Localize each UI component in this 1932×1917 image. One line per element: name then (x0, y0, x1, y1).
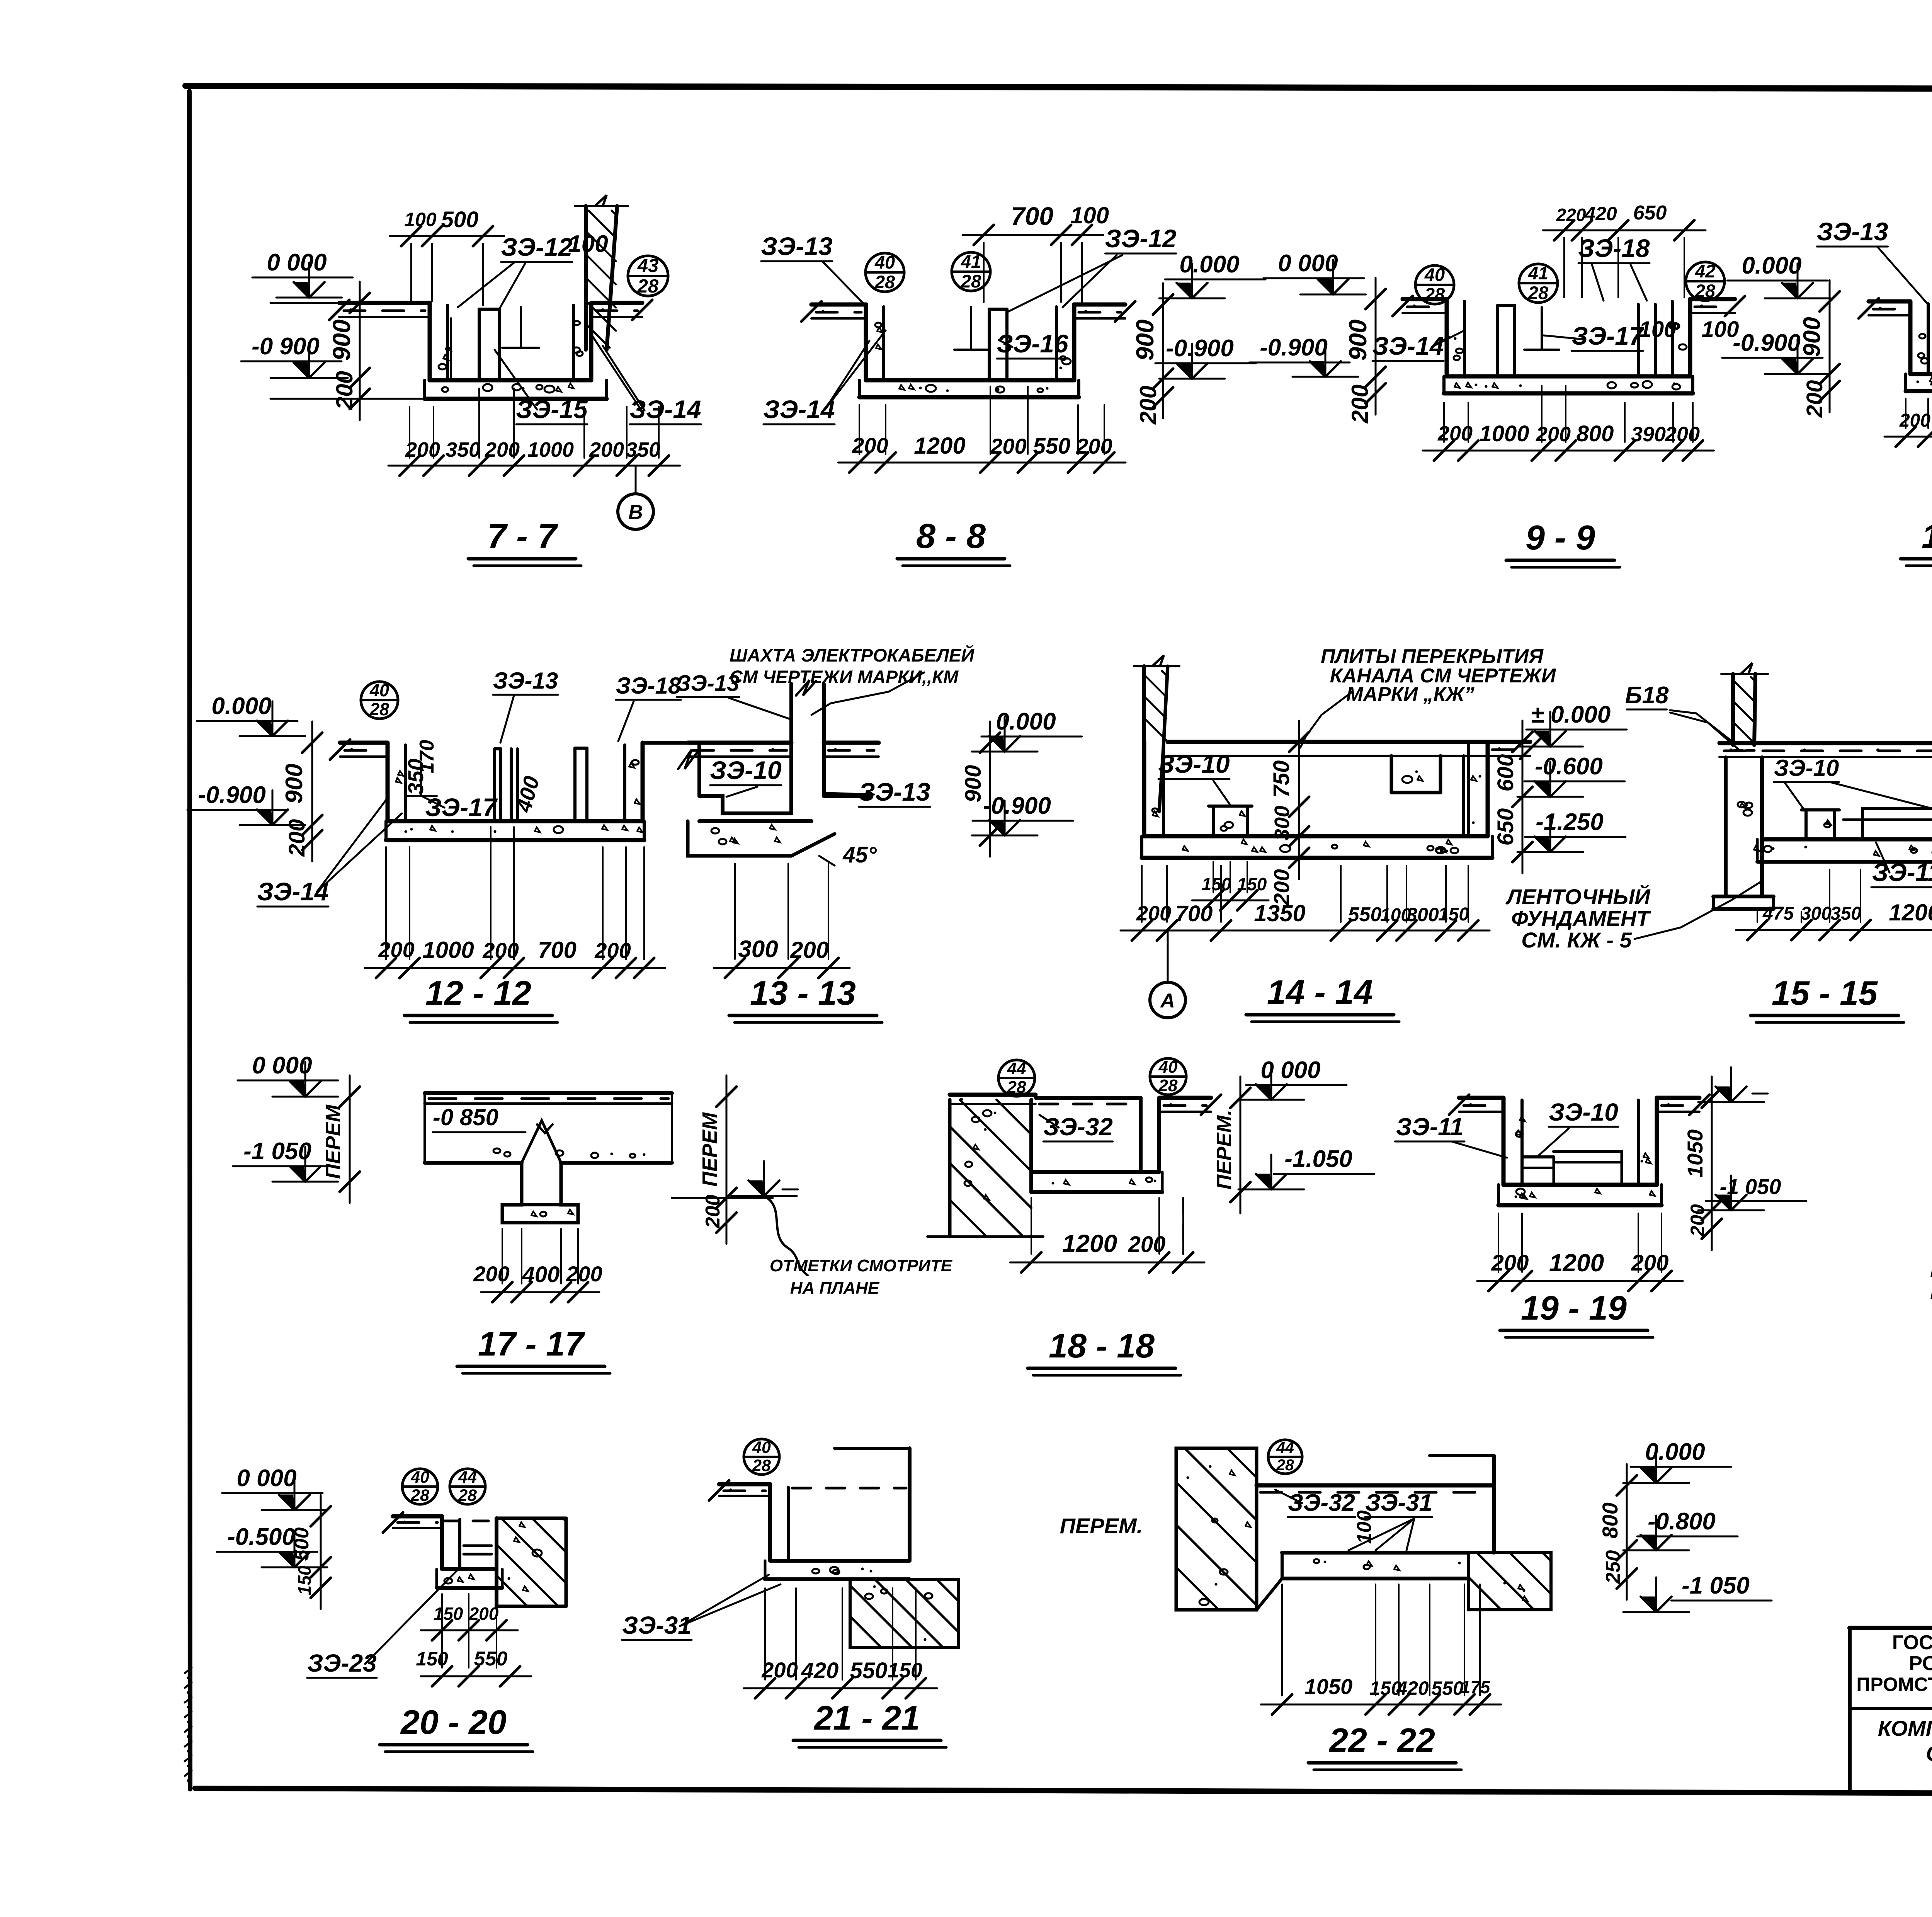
svg-text:100: 100 (1639, 317, 1677, 342)
section 9-9 title (1506, 519, 1620, 567)
section 17-17 level -0.850 (433, 1104, 553, 1133)
section 12-12 left dimension chain 900 200 (281, 721, 322, 861)
svg-text:ШАХТА ЭЛЕКТРОКАБЕЛЕЙ: ШАХТА ЭЛЕКТРОКАБЕЛЕЙ (730, 645, 975, 665)
svg-text:200: 200 (1665, 423, 1700, 446)
section 8-8 channel cross-section (801, 301, 1135, 397)
svg-text:550: 550 (850, 1658, 888, 1683)
section 14-14 level mark -1.250 (1517, 809, 1626, 852)
svg-text:420: 420 (1396, 1677, 1429, 1699)
svg-text:ЗЭ-13: ЗЭ-13 (761, 232, 832, 260)
section 17-17 left chain perem (321, 1075, 360, 1203)
section 8-8 bottom dimension chain (838, 386, 1126, 473)
svg-text:41: 41 (1528, 263, 1548, 283)
svg-text:28: 28 (1528, 282, 1549, 303)
svg-text:0 000: 0 000 (267, 249, 327, 276)
svg-text:200: 200 (702, 1195, 724, 1229)
svg-text:420: 420 (1584, 203, 1617, 225)
svg-text:900: 900 (328, 320, 355, 361)
svg-text:100: 100 (1353, 1510, 1376, 1544)
section 22-22 label perem (1060, 1514, 1143, 1538)
svg-text:390: 390 (1631, 423, 1666, 446)
svg-text:ПЕРЕМ.: ПЕРЕМ. (1213, 1110, 1236, 1190)
section 15-15 leader label ZE-11 (1871, 842, 1932, 887)
section 21-21 title (793, 1699, 946, 1747)
section 18-18 level mark 0.000 (1238, 1057, 1347, 1100)
svg-text:ЛЕНТОЧНЫЙ: ЛЕНТОЧНЫЙ (1505, 885, 1651, 909)
svg-text:200: 200 (1347, 384, 1373, 424)
svg-text:22 - 22: 22 - 22 (1328, 1721, 1435, 1759)
svg-text:28: 28 (874, 272, 895, 292)
section 10-10 channel cross-section (1859, 298, 1932, 391)
section 7-7 leader label ZE-12 (458, 231, 608, 309)
svg-text:-0.900: -0.900 (1733, 330, 1801, 356)
section 19-19 leader label ZE-11 (1395, 1113, 1507, 1158)
section 8-8 leader label ZE-14 (763, 330, 886, 424)
svg-text:150: 150 (1237, 874, 1267, 894)
section 14-14 bottom dimension chain (1121, 866, 1490, 941)
section 18-18 level mark -1.050 (1238, 1146, 1374, 1189)
svg-text:ЗЭ-11: ЗЭ-11 (1396, 1113, 1464, 1141)
svg-text:СТАНЦИЯ: СТАНЦИЯ (1926, 1741, 1932, 1766)
section 9-9 leader label ZE-14 (1372, 330, 1464, 361)
svg-text:1200: 1200 (1549, 1249, 1604, 1277)
svg-text:-0.500: -0.500 (227, 1524, 295, 1550)
svg-text:9 - 9: 9 - 9 (1526, 519, 1595, 557)
section 9-9 channel cross-section (1393, 296, 1745, 393)
svg-text:0 000: 0 000 (252, 1052, 312, 1079)
section 19-19 right levels (1683, 1067, 1806, 1250)
svg-text:200: 200 (1899, 410, 1930, 431)
section 21-21 axis circle 40/28 (744, 1438, 779, 1475)
section 13-13 right chain 900 (961, 721, 1000, 857)
svg-text:1000: 1000 (1479, 421, 1529, 446)
section 9-9 leader label ZE-18 (1578, 234, 1650, 301)
section 22-22 title (1308, 1721, 1461, 1770)
section 7-7 leader label ZE-14 (590, 333, 701, 424)
section 9-9 leader label ZE-17 (1544, 321, 1645, 351)
svg-text:-0 850: -0 850 (433, 1104, 498, 1130)
section 10-10 left dimension chain 900 200 (1799, 280, 1840, 418)
section 22-22 leader labels ZE-32 ZE-31 (1275, 1490, 1432, 1550)
svg-text:28: 28 (1158, 1076, 1178, 1095)
svg-text:170: 170 (416, 740, 438, 774)
svg-text:200: 200 (1135, 386, 1161, 425)
section 7-7 level mark 0.000 (252, 249, 353, 298)
svg-text:ЗЭ-17: ЗЭ-17 (1571, 321, 1645, 350)
svg-text:0.000: 0.000 (1742, 252, 1801, 279)
section 18-18 channel with hatched wall (927, 1095, 1221, 1237)
section 21-21 channel (709, 1448, 910, 1579)
svg-text:0 000: 0 000 (1260, 1057, 1320, 1084)
svg-text:14 - 14: 14 - 14 (1267, 973, 1373, 1011)
svg-text:ЗЭ-13: ЗЭ-13 (493, 668, 558, 694)
svg-text:200: 200 (469, 1604, 499, 1624)
svg-text:40: 40 (1424, 264, 1445, 285)
section 14-14 level mark +0.000 (1517, 701, 1627, 747)
svg-text:220: 220 (1556, 205, 1586, 225)
svg-text:900: 900 (281, 764, 308, 803)
section 13-13 label 45deg (819, 842, 877, 867)
svg-text:1200: 1200 (1889, 900, 1932, 925)
svg-text:200: 200 (852, 433, 888, 458)
svg-text:44: 44 (1007, 1059, 1026, 1078)
svg-text:1350: 1350 (1254, 900, 1305, 926)
svg-text:РОСТОВСКИЙ: РОСТОВСКИЙ (1909, 1652, 1932, 1675)
svg-text:-0.900: -0.900 (983, 793, 1051, 819)
section 9-9 left dimension chain 900 200 (1344, 278, 1386, 424)
svg-text:19 - 19: 19 - 19 (1521, 1289, 1627, 1327)
svg-text:40: 40 (410, 1468, 429, 1487)
svg-text:ЗЭ-32: ЗЭ-32 (1043, 1113, 1113, 1141)
svg-text:28: 28 (369, 699, 389, 719)
section 20-20 level mark 0.000 (222, 1465, 327, 1510)
section 10-10 title (1901, 517, 1932, 566)
svg-text:-1.250: -1.250 (1536, 809, 1604, 835)
svg-text:21 - 21: 21 - 21 (813, 1699, 920, 1737)
section 8-8 leader label ZE-12 (1007, 224, 1177, 312)
section 13-13 cable shaft note (730, 645, 975, 715)
svg-text:НА ПЛАНЕ: НА ПЛАНЕ (790, 1279, 880, 1298)
section 17-17 level mark 0.000 (238, 1052, 338, 1097)
section 22-22 axis circle 44/28 (1268, 1439, 1302, 1474)
section 7-7 bottom dimension chain (388, 388, 680, 476)
section 7-7 channel cross-section (329, 300, 652, 399)
svg-text:28: 28 (458, 1486, 477, 1505)
svg-text:100: 100 (568, 231, 608, 257)
section 19-19 title (1500, 1289, 1653, 1337)
section 18-18 bottom dimension chain 1200 200 (1010, 1198, 1204, 1272)
section 12-12 level mark -0.900 (187, 782, 305, 825)
section 8-8 leader label ZE-13 (761, 232, 866, 306)
svg-text:ОТМЕТКИ СМОТРИТЕ: ОТМЕТКИ СМОТРИТЕ (770, 1256, 953, 1275)
section 21-21 bottom dimension chain (744, 1588, 937, 1698)
svg-text:20 - 20: 20 - 20 (400, 1703, 507, 1741)
title block object name (1878, 1716, 1932, 1791)
section 8-8 level mark 0.000 (1159, 251, 1265, 298)
section 14-14 dims 150 150 (1192, 862, 1269, 910)
svg-text:0.000: 0.000 (1179, 251, 1239, 278)
section 22-22 rotated dim 100 (1353, 1510, 1376, 1544)
svg-text:650: 650 (1633, 202, 1667, 224)
svg-text:ЗЭ-11: ЗЭ-11 (1872, 858, 1932, 886)
section 13-13 level mark -0.900 right (972, 793, 1073, 835)
svg-text:28: 28 (961, 271, 981, 291)
section 15-15 bottom dimension chain (1736, 869, 1932, 940)
svg-text:15 - 15: 15 - 15 (1772, 974, 1878, 1012)
svg-text:200: 200 (790, 937, 829, 963)
svg-text:500: 500 (291, 1527, 313, 1561)
svg-text:ЗЭ-18: ЗЭ-18 (616, 673, 681, 699)
section 14-14 right chain 600 650 (1493, 721, 1532, 873)
svg-text:ЗЭ-10: ЗЭ-10 (1158, 750, 1230, 778)
section 18-18 title (1028, 1327, 1181, 1375)
svg-text:400: 400 (522, 1262, 560, 1287)
svg-text:12 - 12: 12 - 12 (425, 974, 531, 1012)
svg-text:550: 550 (1431, 1677, 1464, 1699)
section 22-22 level mark -0.800 (1623, 1508, 1738, 1550)
title block frame (1850, 1628, 1932, 1793)
section 14-14 slab note (1300, 645, 1556, 748)
svg-text:1050: 1050 (1683, 1129, 1707, 1178)
section 14-14 axis circle A (1150, 930, 1185, 1018)
svg-text:ЗЭ-32: ЗЭ-32 (1288, 1490, 1355, 1516)
section 17-17 right chain perem 200 (672, 1075, 808, 1275)
svg-text:-0.600: -0.600 (1535, 753, 1603, 780)
svg-text:В: В (628, 501, 643, 524)
section 9-9 level mark 0.000 left (1264, 250, 1366, 294)
section 14-14 channel cross-section (1134, 655, 1540, 858)
svg-text:ЗЭ-12: ЗЭ-12 (1105, 224, 1177, 253)
section 20-20 level mark -0.500 (217, 1524, 327, 1567)
section 13-13 level mark 0.000 right (972, 708, 1082, 752)
svg-text:300: 300 (1270, 806, 1294, 840)
section 12-12 leader label ZE-18 (616, 673, 681, 741)
svg-text:ЗЭ-18: ЗЭ-18 (1578, 234, 1650, 262)
section 20-20 left chain 500 150 (291, 1495, 331, 1609)
svg-text:28: 28 (1695, 281, 1716, 301)
svg-text:-0.800: -0.800 (1648, 1508, 1716, 1535)
svg-text:ЗЭ-10: ЗЭ-10 (1774, 755, 1839, 781)
section 13-13 title (729, 974, 882, 1022)
svg-text:100: 100 (1070, 202, 1109, 228)
svg-text:8 - 8: 8 - 8 (916, 517, 986, 556)
left margin stamp marks (185, 1668, 192, 1782)
section 12-12 rotated dims 350 170 400 (403, 740, 544, 815)
svg-text:600: 600 (1493, 754, 1518, 792)
section 7-7 level mark -0.900 (241, 333, 342, 378)
svg-text:ЗЭ-13: ЗЭ-13 (1816, 217, 1888, 246)
svg-text:ЗЭ-12: ЗЭ-12 (501, 233, 573, 261)
section 12-12 axis circle 40/28 (361, 680, 398, 719)
svg-text:200: 200 (1076, 434, 1112, 458)
svg-text:13 - 13: 13 - 13 (750, 974, 856, 1012)
svg-text:44: 44 (458, 1468, 477, 1487)
svg-text:7 - 7: 7 - 7 (487, 517, 558, 556)
section 9-9 labels 100 100 (1639, 317, 1739, 342)
section 18-18 leader label ZE-32 (1039, 1113, 1113, 1141)
svg-text:28: 28 (752, 1456, 771, 1475)
svg-text:200: 200 (1437, 422, 1473, 445)
svg-text:200: 200 (1631, 1250, 1669, 1276)
svg-text:17 - 17: 17 - 17 (478, 1325, 585, 1363)
svg-text:СМ. КЖ - 5: СМ. КЖ - 5 (1521, 928, 1632, 952)
section 20-20 axis circles 40/28 44/28 (402, 1468, 485, 1505)
svg-text:ЗЭ-10: ЗЭ-10 (710, 756, 782, 784)
svg-text:ЗЭ-15: ЗЭ-15 (516, 395, 588, 424)
svg-text:28: 28 (410, 1486, 429, 1505)
section 9-9 level mark -0.900 left (1249, 334, 1358, 377)
svg-text:ЗЭ-17: ЗЭ-17 (425, 793, 498, 822)
section 22-22 level mark 0.000 (1623, 1439, 1731, 1483)
svg-text:200: 200 (1802, 380, 1827, 418)
svg-text:100: 100 (404, 209, 437, 230)
svg-text:200: 200 (990, 434, 1026, 458)
svg-text:500: 500 (441, 207, 479, 232)
title block org names (1856, 1631, 1932, 1710)
svg-text:200: 200 (589, 438, 624, 461)
svg-text:200: 200 (761, 1658, 798, 1682)
svg-text:28: 28 (1424, 284, 1445, 304)
section 14-14 level mark -0.600 (1517, 753, 1625, 797)
section 7-7 top dimension 100 500 (390, 207, 504, 305)
svg-text:900: 900 (961, 765, 986, 803)
svg-text:250: 250 (1602, 1550, 1624, 1584)
section 12-12 channel cross-section (330, 740, 699, 840)
svg-text:-0.900: -0.900 (1260, 334, 1328, 361)
svg-text:ЗЭ-13: ЗЭ-13 (677, 671, 740, 696)
svg-text:1000: 1000 (422, 937, 474, 963)
svg-text:150: 150 (434, 1604, 463, 1624)
svg-text:10 - 10: 10 - 10 (1922, 517, 1932, 555)
section 17-17 flag right (731, 1161, 798, 1196)
svg-text:-0.900: -0.900 (1166, 335, 1234, 362)
section 19-19 channel cross-section (1449, 1095, 1709, 1205)
section 21-21 hatched block right (850, 1579, 958, 1647)
svg-text:ЗЭ-13: ЗЭ-13 (859, 777, 930, 806)
svg-text:750: 750 (1269, 760, 1294, 798)
section 22-22 right chain 800 250 (1598, 1464, 1637, 1600)
section 12-12 leader label ZE-13 (493, 668, 558, 743)
section 8-8 axis circle 41/28 (952, 251, 990, 291)
svg-text:± 0.000: ± 0.000 (1531, 701, 1611, 728)
svg-text:800: 800 (1577, 421, 1614, 446)
svg-text:БЕТОН: БЕТОН (1930, 1257, 1932, 1282)
section 12-12 leader label ZE-17 (423, 793, 498, 822)
svg-text:45°: 45° (842, 842, 877, 867)
svg-text:200: 200 (284, 819, 310, 857)
section 22-22 bottom dimension chain (1261, 1584, 1501, 1715)
svg-text:40: 40 (752, 1438, 771, 1457)
section 13-13 leader label ZE-10 (710, 756, 782, 797)
section 8-8 level mark -0.900 (1155, 335, 1256, 379)
svg-text:550: 550 (1348, 903, 1382, 926)
section 9-9 axis circle 42/28 (1686, 261, 1725, 301)
section 8-8 leader label ZE-16 (997, 329, 1069, 359)
svg-text:43: 43 (637, 255, 659, 276)
section 8-8 title (897, 517, 1010, 566)
svg-text:200: 200 (332, 371, 357, 410)
section 10-10 leader label ZE-13 (1816, 217, 1928, 304)
svg-text:28: 28 (637, 276, 659, 297)
section 19-19 leader label ZE-10 (1538, 1098, 1618, 1156)
section 23-23 beton marki 400 note (1930, 1254, 1932, 1304)
svg-text:150: 150 (416, 1648, 448, 1670)
svg-text:150: 150 (294, 1565, 315, 1595)
svg-text:1200: 1200 (1062, 1230, 1117, 1257)
section 9-9 axis circle 40/28 (1415, 264, 1454, 304)
svg-text:-1 050: -1 050 (1682, 1572, 1750, 1599)
svg-text:40: 40 (874, 252, 895, 272)
section 18-18 rotated perem (1213, 1077, 1250, 1213)
svg-text:550: 550 (474, 1648, 508, 1670)
section 19-19 bottom dimension chain (1477, 1213, 1683, 1291)
section 20-20 hatched block right (497, 1518, 566, 1606)
svg-text:200: 200 (1687, 1204, 1708, 1237)
section 20-20 dims 150 200 / 150 550 (416, 1594, 531, 1686)
svg-text:ПЕРЕМ.: ПЕРЕМ. (1060, 1514, 1143, 1538)
svg-text:800: 800 (1598, 1502, 1622, 1538)
svg-text:0 000: 0 000 (236, 1465, 296, 1492)
svg-text:475: 475 (1762, 903, 1794, 924)
section 7-7 left dimension chain 900 200 (270, 282, 425, 420)
svg-text:ПРОМСТРОЙНИИПРОЕКТ: ПРОМСТРОЙНИИПРОЕКТ (1856, 1673, 1932, 1695)
svg-text:200: 200 (1491, 1250, 1529, 1276)
section 10-10 level mark 0.000 (1727, 252, 1830, 298)
svg-text:200: 200 (473, 1262, 509, 1286)
svg-text:550: 550 (1033, 434, 1071, 459)
svg-text:300: 300 (1406, 904, 1439, 925)
svg-text:350: 350 (626, 438, 660, 461)
svg-text:300: 300 (1801, 903, 1832, 924)
svg-text:900: 900 (1344, 320, 1372, 361)
section 9-9 top dimension 220 420 650 (1543, 202, 1706, 298)
svg-text:44: 44 (1276, 1439, 1294, 1456)
svg-text:18 - 18: 18 - 18 (1049, 1327, 1155, 1365)
svg-text:СМ ЧЕРТЕЖИ МАРКИ,,КМ: СМ ЧЕРТЕЖИ МАРКИ,,КМ (730, 667, 959, 687)
svg-text:МАРКИ 400: МАРКИ 400 (1930, 1279, 1932, 1304)
section 12-12 level mark 0.000 (197, 693, 305, 736)
svg-text:-0.900: -0.900 (198, 782, 266, 808)
svg-text:ФУНДАМЕНТ: ФУНДАМЕНТ (1511, 906, 1651, 930)
section 14-14 rotated dims 750 300 200 (1269, 721, 1309, 906)
section 12-12 leader label ZE-14 (257, 798, 402, 907)
svg-text:300: 300 (738, 936, 778, 963)
svg-text:МАРКИ „КЖ”: МАРКИ „КЖ” (1346, 683, 1475, 706)
section 17-17 level mark -1.050 (233, 1138, 338, 1182)
svg-text:ПЕРЕМ: ПЕРЕМ (321, 1104, 345, 1179)
section 9-9 bottom dimension chain (1423, 386, 1714, 461)
svg-text:700: 700 (1175, 901, 1213, 926)
svg-text:0.000: 0.000 (211, 693, 271, 720)
svg-text:0.000: 0.000 (1645, 1439, 1705, 1465)
svg-text:420: 420 (801, 1658, 839, 1683)
section 15-15 title (1751, 974, 1904, 1022)
svg-text:40: 40 (1158, 1058, 1178, 1077)
section 12-12 title (405, 974, 558, 1022)
svg-text:1200: 1200 (914, 433, 965, 459)
section 17-17 floor slab plan strip (425, 1093, 672, 1223)
svg-text:200: 200 (566, 1262, 602, 1286)
svg-text:28: 28 (1276, 1456, 1294, 1474)
svg-text:350: 350 (446, 438, 480, 461)
section 8-8 axis circle 40/28 (866, 252, 904, 292)
section 21-21 leader label ZE-31 (622, 1575, 781, 1640)
section 20-20 leader label ZE-23 (307, 1570, 458, 1678)
section 14-14 leader label ZE-10 (1158, 750, 1231, 806)
section 17-17 title (457, 1325, 610, 1373)
svg-text:350: 350 (1830, 903, 1861, 924)
section 18-18 axis circles 44/28 40/28 (998, 1058, 1186, 1097)
section 17-17 note otmetki (770, 1256, 953, 1298)
section 13-13 bottom dimension chain 300 200 (714, 864, 850, 978)
section 15-15 pier and channel (1713, 663, 1932, 909)
svg-text:42: 42 (1695, 261, 1715, 281)
section 10-10 level mark -0.900 (1722, 330, 1830, 374)
svg-text:ЗЭ-10: ЗЭ-10 (1549, 1098, 1618, 1126)
svg-text:700: 700 (1011, 202, 1053, 230)
section 15-15 strip foundation note (1505, 881, 1762, 952)
svg-text:Б18: Б18 (1625, 682, 1669, 709)
section 22-22 channel with hatched blocks (1176, 1448, 1551, 1610)
svg-text:900: 900 (1131, 320, 1159, 361)
section 17-17 bottom dimension chain (473, 1229, 602, 1302)
svg-text:-1.050: -1.050 (1284, 1146, 1352, 1172)
svg-text:650: 650 (1493, 808, 1518, 846)
svg-text:900: 900 (1799, 317, 1825, 357)
svg-text:КОМПРЕССОРНАЯ: КОМПРЕССОРНАЯ (1878, 1716, 1932, 1740)
section 7-7 leader label ZE-15 (495, 350, 588, 424)
section 20-20 small trough (383, 1512, 502, 1588)
